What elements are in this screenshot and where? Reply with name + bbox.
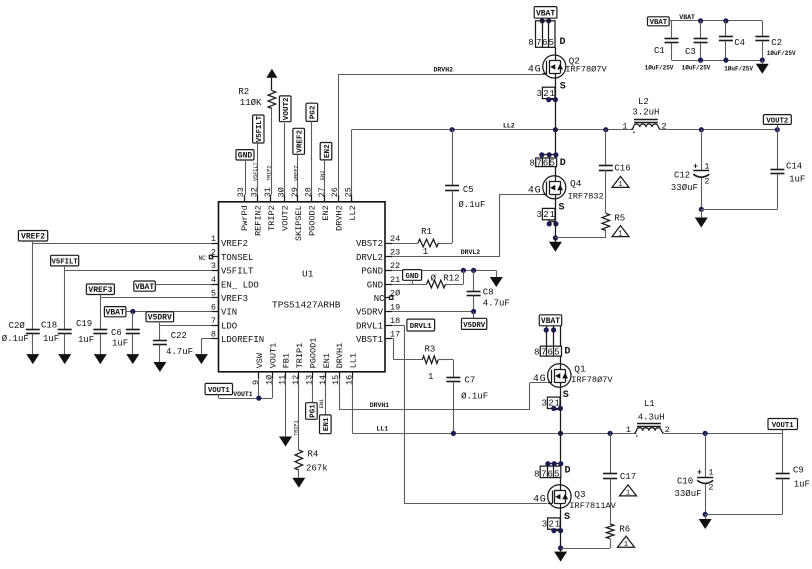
wire VBAT rail top — [669, 20, 762, 22]
svg-text:VOUT1: VOUT1 — [772, 422, 795, 430]
svg-text:Ø.1uF: Ø.1uF — [458, 200, 485, 210]
svg-text:7: 7 — [536, 159, 541, 169]
node LL1/Q1-Q3 — [558, 431, 563, 436]
svg-text:PwrPd: PwrPd — [240, 205, 250, 231]
svg-text:1: 1 — [622, 121, 627, 131]
wire pin 21 to R12 — [392, 284, 427, 286]
svg-text:PGOOD1: PGOOD1 — [308, 338, 318, 369]
svg-text:D: D — [565, 466, 571, 477]
capacitor C9 1uF — [776, 433, 810, 514]
resistor R3 — [422, 345, 438, 383]
svg-text:C12: C12 — [674, 171, 690, 181]
svg-text:7: 7 — [211, 316, 216, 326]
svg-text:1ØuF/25V: 1ØuF/25V — [767, 50, 796, 57]
svg-text:4: 4 — [528, 185, 534, 196]
svg-text:R4: R4 — [308, 450, 319, 460]
svg-text:LL1: LL1 — [349, 353, 359, 368]
svg-text:S: S — [564, 512, 570, 523]
svg-text:2: 2 — [548, 519, 553, 529]
svg-text:17: 17 — [390, 330, 400, 340]
svg-text:TRIP2: TRIP2 — [266, 165, 272, 181]
wire FB1 pin 11 to ground — [285, 379, 287, 437]
svg-text:EN2: EN2 — [324, 144, 332, 158]
svg-text:EN1: EN1 — [319, 399, 325, 408]
wire VBAT to pin 6 VIN — [126, 311, 212, 313]
net label GND at pin 21 — [403, 270, 422, 281]
svg-text:C2Ø: C2Ø — [9, 321, 26, 331]
svg-text:C9: C9 — [793, 466, 804, 476]
wire Q3 source to R6/C17 return — [561, 548, 611, 550]
svg-text:8: 8 — [534, 469, 539, 479]
svg-text:C3: C3 — [685, 47, 696, 57]
ground at LDOREFIN — [195, 354, 208, 364]
wire GND box to pin 33 — [245, 160, 247, 195]
capacitor C19 — [76, 298, 107, 354]
svg-text:C7: C7 — [465, 376, 476, 386]
svg-text:21: 21 — [390, 275, 400, 285]
svg-text:PGOOD2: PGOOD2 — [307, 205, 317, 236]
svg-text:R2: R2 — [238, 87, 249, 97]
ground below C22 — [153, 362, 166, 372]
svg-text:TRIP2: TRIP2 — [267, 205, 277, 231]
svg-text:2Ø: 2Ø — [390, 289, 400, 299]
net label VREF3 — [86, 284, 114, 295]
ground below C19 — [94, 354, 107, 364]
node LL2/C16 — [603, 127, 608, 132]
svg-text:EN2: EN2 — [320, 171, 326, 180]
svg-text:D: D — [564, 346, 570, 357]
wire R12 to PGND node — [446, 284, 464, 286]
svg-text:6: 6 — [547, 347, 552, 357]
net label EN2 at pin 27 — [320, 143, 332, 160]
svg-text:VREF2: VREF2 — [221, 239, 248, 249]
capacitor C7 — [446, 376, 488, 434]
svg-text:3: 3 — [536, 210, 541, 220]
svg-text:S: S — [559, 202, 565, 213]
svg-text:1uF: 1uF — [78, 335, 94, 345]
wire pin 29 — [297, 154, 299, 195]
wire pin 28 — [311, 121, 313, 195]
svg-text:TRIP1: TRIP1 — [293, 420, 299, 436]
wire R6 to Q3 source return — [610, 539, 612, 548]
net label VREF2 — [18, 231, 47, 242]
svg-text:5: 5 — [549, 159, 554, 169]
wire Q4 drain from LL2 — [555, 130, 557, 158]
svg-text:VSW: VSW — [255, 352, 265, 368]
svg-text:1uF: 1uF — [789, 174, 805, 184]
svg-text:+: + — [697, 469, 702, 478]
wire Q2 drain — [555, 47, 557, 55]
svg-text:4: 4 — [533, 495, 539, 506]
resistor R4 267k — [295, 450, 328, 474]
svg-text:1ØuF/25V: 1ØuF/25V — [682, 65, 711, 72]
capacitor C12 330uF — [671, 130, 710, 210]
svg-text:C4: C4 — [734, 38, 745, 48]
inductor L2 3.2uH — [622, 97, 666, 133]
svg-text:LL2: LL2 — [503, 123, 515, 130]
svg-text:PGND: PGND — [361, 267, 383, 277]
ground at Q4 source — [555, 238, 557, 242]
svg-text:Q3: Q3 — [574, 489, 586, 500]
svg-text:+: + — [693, 162, 698, 171]
svg-text:Q4: Q4 — [570, 178, 582, 189]
wire LDOREFIN pin 8 to ground — [201, 338, 211, 340]
wire LL2 from pin 25 — [351, 130, 353, 195]
net label VREF2 at pin 29 — [293, 128, 305, 154]
svg-text:1: 1 — [618, 181, 622, 189]
capacitor C3 10uF/25V — [682, 21, 711, 72]
net label VOUT2 — [777, 124, 779, 130]
ground below C10 — [705, 514, 707, 519]
svg-text:12: 12 — [291, 375, 301, 385]
wire Q4 source — [555, 199, 557, 224]
warning triangle 1 at R6 — [618, 536, 635, 547]
ground at FB1 — [279, 437, 292, 447]
svg-text:PG1: PG1 — [309, 404, 317, 418]
svg-text:1: 1 — [626, 425, 631, 435]
wire Q4 source to R5/C16 return — [555, 237, 605, 239]
wire DRVH2 from pin 26 to Q2 gate — [338, 74, 340, 195]
svg-text:DRVH2: DRVH2 — [334, 205, 344, 231]
capacitor C17 — [603, 433, 636, 524]
svg-text:LDO: LDO — [221, 321, 237, 331]
wire C10 to C9 bottom — [705, 514, 783, 516]
wire VBAT to pin 4 — [155, 284, 211, 286]
node C10 bottom — [703, 512, 708, 517]
svg-text:C18: C18 — [41, 321, 57, 331]
svg-text:EN_ LDO: EN_ LDO — [221, 280, 259, 290]
ground at cap bank — [762, 60, 764, 64]
svg-text:11: 11 — [278, 375, 288, 385]
svg-text:18: 18 — [390, 316, 400, 326]
svg-text:C10: C10 — [677, 477, 693, 487]
svg-text:2: 2 — [211, 248, 216, 258]
svg-text:33: 33 — [236, 187, 246, 197]
svg-text:VOUT2: VOUT2 — [283, 97, 291, 120]
svg-text:TONSEL: TONSEL — [221, 253, 253, 263]
svg-text:S: S — [560, 82, 566, 93]
wire pin 30 — [284, 123, 286, 195]
node VOUT2/C12 — [699, 127, 704, 132]
svg-text:C1: C1 — [654, 46, 665, 56]
svg-text:1: 1 — [624, 541, 628, 549]
svg-text:5: 5 — [554, 347, 559, 357]
svg-text:DRVH2: DRVH2 — [434, 67, 454, 74]
svg-text:R12: R12 — [443, 274, 459, 284]
svg-text:1: 1 — [549, 210, 554, 220]
wire pin 24 VBST2 to R1 — [392, 243, 418, 245]
wire DRVL2 from pin 23 to Q4 gate — [392, 256, 500, 258]
svg-text:1: 1 — [626, 490, 630, 498]
svg-text:C19: C19 — [76, 319, 92, 329]
svg-text:VREF2: VREF2 — [293, 165, 299, 181]
transistor Q4 IRF7832 (low-side ch2) — [528, 130, 606, 252]
svg-text:L1: L1 — [644, 399, 655, 409]
svg-text:1uF: 1uF — [794, 480, 810, 490]
resistor R5 — [602, 213, 625, 230]
svg-text:VOUT2: VOUT2 — [766, 117, 788, 125]
net label VBAT at EN_LDO — [134, 281, 156, 291]
wire Q3 drain from LL1 — [560, 433, 562, 466]
svg-text:8: 8 — [534, 347, 539, 357]
capacitor C4 10uF/25V — [719, 21, 754, 73]
svg-text:1: 1 — [423, 247, 428, 257]
svg-text:1: 1 — [708, 468, 713, 478]
svg-text:D: D — [560, 37, 566, 48]
capacitor C2 10uF/25V — [755, 21, 796, 60]
svg-text:NC: NC — [374, 294, 385, 304]
svg-text:24: 24 — [390, 234, 400, 244]
wire R2 to pin 31 TRIP2 — [271, 109, 273, 195]
svg-text:C16: C16 — [614, 163, 630, 173]
svg-text:G: G — [540, 495, 546, 506]
wire Q2 drain pins to VBAT — [542, 18, 544, 21]
inductor L1 4.3uH — [626, 399, 670, 437]
svg-text:DRVH1: DRVH1 — [370, 402, 390, 409]
svg-text:FB1: FB1 — [282, 353, 292, 368]
capacitor C10 330uF — [675, 433, 714, 514]
svg-text:3: 3 — [541, 399, 546, 409]
wire PGND pin 22 to ground — [392, 270, 496, 272]
svg-text:EN2: EN2 — [321, 205, 331, 220]
svg-text:C22: C22 — [171, 331, 187, 341]
svg-text:V5DRV: V5DRV — [356, 308, 384, 318]
svg-text:G: G — [535, 185, 541, 196]
node VBAT/C3 — [698, 18, 703, 23]
svg-text:VIN: VIN — [221, 308, 237, 318]
svg-text:1ØuF/25V: 1ØuF/25V — [724, 66, 753, 73]
svg-text:IRF7832: IRF7832 — [568, 191, 604, 201]
warning triangle 1 at C16 — [612, 176, 629, 187]
ground below C18 — [58, 354, 71, 364]
resistor R12 0 ohm — [427, 274, 460, 288]
svg-text:R1: R1 — [421, 227, 432, 237]
svg-text:14: 14 — [318, 375, 328, 385]
svg-text:DRVL1: DRVL1 — [410, 323, 433, 331]
svg-text:V5FILT: V5FILT — [221, 267, 254, 277]
svg-text:29: 29 — [290, 187, 300, 197]
svg-text:7: 7 — [536, 38, 541, 48]
wire LL1 from pin 16 — [352, 379, 354, 434]
net label VOUT1 — [782, 430, 784, 434]
svg-text:25: 25 — [344, 187, 354, 197]
svg-text:GND: GND — [238, 152, 253, 161]
svg-text:GND: GND — [406, 273, 420, 281]
svg-text:1uF: 1uF — [112, 339, 128, 349]
svg-text:IRF78Ø7V: IRF78Ø7V — [571, 375, 613, 385]
svg-text:VBAT: VBAT — [135, 283, 154, 292]
net label DRVL1 — [407, 319, 435, 331]
svg-text:VBAT: VBAT — [536, 9, 555, 18]
svg-text:R5: R5 — [614, 214, 625, 224]
net label GND at pin 33 — [236, 150, 254, 160]
wire VREF3 net to pin 5 — [100, 295, 102, 298]
net label VOUT1 at VSW/VOUT1 pins — [205, 383, 232, 394]
svg-text:V5DRV: V5DRV — [148, 314, 172, 323]
wire TRIP1 pin 12 to R4 — [298, 379, 300, 450]
svg-text:DRVL2: DRVL2 — [461, 249, 481, 256]
svg-text:1: 1 — [555, 519, 560, 529]
svg-text:VREF3: VREF3 — [88, 286, 112, 295]
ground below C6 — [126, 354, 139, 364]
svg-text:33ØuF: 33ØuF — [675, 489, 702, 499]
svg-text:D: D — [560, 158, 566, 169]
net label VOUT2 at pin 30 — [279, 96, 291, 122]
wire DRVH1 from pin 15 to Q1 gate — [339, 379, 341, 410]
svg-text:Q1: Q1 — [574, 363, 586, 374]
node C12 bottom — [699, 207, 704, 212]
ground below C20 — [26, 354, 39, 364]
svg-text:TPS51427ARHB: TPS51427ARHB — [272, 300, 341, 311]
svg-text:C6: C6 — [111, 328, 122, 338]
svg-text:27: 27 — [317, 187, 327, 197]
wire Q3 source — [560, 508, 562, 530]
node PGND/C8 — [471, 268, 476, 273]
svg-text:5: 5 — [549, 38, 554, 48]
svg-text:V5FILT: V5FILT — [256, 115, 264, 142]
svg-text:PG2: PG2 — [310, 105, 318, 119]
svg-text:1: 1 — [704, 161, 709, 171]
svg-text:C17: C17 — [620, 472, 636, 482]
svg-text:DRVL2: DRVL2 — [356, 253, 383, 263]
svg-text:9: 9 — [251, 380, 261, 385]
node bank bottom C4 — [723, 58, 728, 63]
wire VOUT1 to pins 9,10 — [218, 395, 220, 399]
node VBAT/C6 junction — [130, 309, 135, 314]
node LL1/C7 — [451, 431, 456, 436]
warning triangle 1 at R5 — [612, 226, 629, 237]
net label V5FILT — [51, 255, 79, 266]
svg-text:Ø.1uF: Ø.1uF — [461, 392, 488, 402]
svg-text:267k: 267k — [306, 464, 328, 474]
net label VBAT input bank — [648, 17, 670, 26]
svg-text:VREF2: VREF2 — [21, 233, 45, 242]
wire VBAT rail bottom — [672, 60, 763, 62]
svg-text:IRF78Ø7V: IRF78Ø7V — [565, 65, 607, 75]
svg-text:3: 3 — [211, 261, 216, 271]
wire V5DRV pin 19 — [392, 311, 474, 313]
svg-text:2: 2 — [704, 176, 709, 186]
wire Q1 source to LL1 — [560, 387, 562, 408]
svg-text:3: 3 — [542, 519, 547, 529]
svg-text:3.2uH: 3.2uH — [632, 108, 659, 118]
wire C12 to C14 bottom — [701, 209, 777, 211]
wire VOUT1 rail — [662, 433, 782, 435]
svg-text:4: 4 — [528, 64, 534, 75]
svg-text:1ØuF/25V: 1ØuF/25V — [645, 65, 674, 72]
capacitor C6 — [111, 312, 140, 355]
wire R3 to C7 — [438, 359, 453, 361]
node VBAT/C4 — [723, 18, 728, 23]
svg-text:VREF3: VREF3 — [221, 294, 248, 304]
capacitor C22 — [153, 331, 193, 362]
svg-text:4: 4 — [533, 374, 539, 385]
svg-text:4: 4 — [211, 275, 216, 285]
transistor Q2 IRF7807V (high-side ch2) — [528, 7, 608, 130]
net label EN1 at pin 14 — [325, 379, 327, 415]
net label V5FILT at pin 32 — [253, 115, 264, 143]
svg-text:4.7uF: 4.7uF — [483, 299, 510, 309]
node LL1/C17 — [608, 431, 613, 436]
svg-text:GND: GND — [367, 280, 383, 290]
svg-text:VBAT: VBAT — [541, 317, 560, 326]
svg-text:1: 1 — [618, 230, 622, 238]
svg-text:8: 8 — [529, 159, 534, 169]
resistor R2 110K — [238, 78, 275, 109]
svg-text:LL2: LL2 — [348, 205, 358, 220]
svg-text:LDOREFIN: LDOREFIN — [221, 335, 264, 345]
svg-text:VOUT1: VOUT1 — [233, 391, 253, 398]
svg-text:1uF: 1uF — [43, 334, 59, 344]
svg-text:SKIPSEL: SKIPSEL — [294, 205, 304, 241]
net label VBAT at VIN — [104, 307, 126, 317]
svg-text:2: 2 — [543, 210, 548, 220]
wire VOUT2 rail — [659, 129, 777, 131]
node PGND/R12 — [461, 268, 466, 273]
svg-text:7: 7 — [541, 347, 546, 357]
wire VBST1 pin 17 to R3 — [392, 338, 394, 340]
svg-text:6: 6 — [543, 159, 548, 169]
svg-text:L2: L2 — [638, 97, 649, 107]
transistor Q1 IRF7807V (high-side ch1) — [533, 315, 613, 434]
IC U1 TPS51427ARHB body — [198, 187, 400, 385]
capacitor C16 — [599, 130, 631, 214]
svg-text:8: 8 — [528, 38, 533, 48]
svg-text:C8: C8 — [483, 288, 494, 298]
svg-text:2: 2 — [708, 483, 713, 493]
svg-text:V5DRV: V5DRV — [463, 322, 486, 330]
svg-text:Ø.1uF: Ø.1uF — [2, 334, 29, 344]
svg-text:VBST1: VBST1 — [356, 335, 383, 345]
svg-text:VOUT2: VOUT2 — [281, 205, 291, 231]
wire V5FILT net to pin 3 — [64, 266, 66, 271]
node LL2/Q2-Q4 — [553, 127, 558, 132]
wire R5 to Q4 source return — [605, 231, 607, 238]
node VOUT2 label stub — [775, 127, 780, 132]
svg-text:VOUT1: VOUT1 — [208, 387, 231, 395]
node bank bottom C3 — [698, 58, 703, 63]
svg-text:EN1: EN1 — [322, 353, 332, 368]
net label PG1 at pin 13 — [312, 379, 314, 403]
svg-text:DRVH1: DRVH1 — [335, 343, 345, 369]
wire DRVL1 from pin 18 to Q3 gate — [392, 325, 404, 327]
svg-text:NC: NC — [198, 255, 206, 262]
svg-text:3: 3 — [536, 89, 541, 99]
wire LDO pin 7 net — [159, 322, 161, 341]
net label V5DRV at pin 19 — [473, 312, 475, 319]
node V5DRV/C8 — [471, 309, 476, 314]
warning triangle 1 at C17 — [620, 485, 637, 496]
svg-text:LL1: LL1 — [376, 425, 388, 432]
wire pin 27 — [324, 159, 326, 195]
svg-text:5: 5 — [554, 469, 559, 479]
svg-text:G: G — [540, 374, 546, 385]
svg-text:33ØuF: 33ØuF — [671, 183, 698, 193]
svg-text:1: 1 — [211, 234, 216, 244]
capacitor C5 — [439, 130, 486, 244]
capacitor C18 — [41, 270, 72, 354]
svg-text:19: 19 — [390, 302, 400, 312]
ground at PGND — [496, 270, 498, 277]
svg-text:S: S — [563, 390, 569, 401]
capacitor C8 — [467, 270, 510, 311]
net label PG2 at pin 28 — [306, 103, 318, 121]
svg-text:11ØK: 11ØK — [240, 98, 262, 108]
resistor R1 — [418, 227, 439, 257]
svg-text:TRIP1: TRIP1 — [295, 343, 305, 369]
svg-text:VOUT1: VOUT1 — [268, 343, 278, 369]
svg-text:G: G — [535, 64, 541, 75]
